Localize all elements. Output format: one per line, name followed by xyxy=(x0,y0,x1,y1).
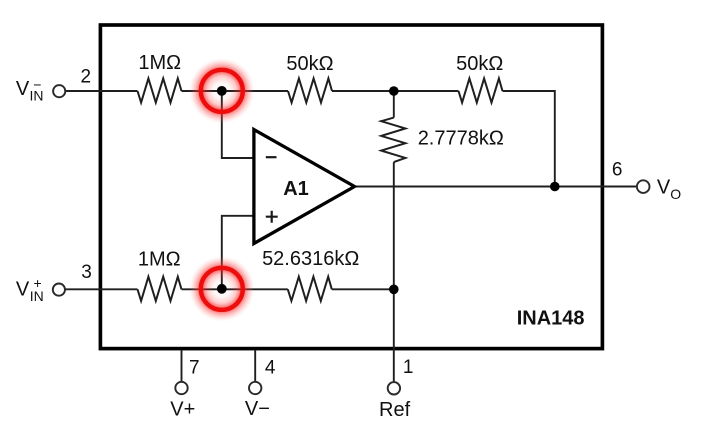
svg-text:2: 2 xyxy=(81,66,92,87)
svg-text:V−: V− xyxy=(245,398,270,420)
svg-text:4: 4 xyxy=(265,358,276,379)
wire node C to R6 xyxy=(182,288,288,290)
wire node B down to R4 xyxy=(393,91,395,118)
terminal pin 6 xyxy=(637,180,650,193)
wire output from op-amp to pin 6 xyxy=(355,186,638,188)
svg-text:50kΩ: 50kΩ xyxy=(286,53,333,75)
svg-text:V: V xyxy=(16,278,30,300)
wire R4 down to node D and Ref pin 1 xyxy=(393,162,395,382)
wire pin3 input xyxy=(65,288,138,290)
svg-text:INA148: INA148 xyxy=(517,308,585,330)
wire node A down to inverting input xyxy=(222,91,254,158)
red highlight glow node A xyxy=(189,58,255,124)
svg-text:+: + xyxy=(34,275,42,291)
svg-text:V: V xyxy=(657,176,671,198)
svg-text:−: − xyxy=(33,77,41,93)
svg-text:2.7778kΩ: 2.7778kΩ xyxy=(418,128,504,150)
svg-text:V: V xyxy=(16,78,30,100)
wire R3 to right corner xyxy=(503,91,555,187)
wire node B to R3 xyxy=(332,90,459,92)
wire node A to R2 xyxy=(182,90,289,92)
svg-text:7: 7 xyxy=(189,358,200,379)
junction dot node C xyxy=(217,284,227,294)
resistor R5 1M ohm bottom xyxy=(138,277,182,301)
terminal pin 2 xyxy=(53,85,65,97)
op-amp minus input sign xyxy=(266,156,277,158)
resistor R2 50k ohm top middle xyxy=(288,78,332,102)
junction dot node A xyxy=(217,86,227,96)
op-amp A1 triangle xyxy=(254,130,355,244)
svg-text:6: 6 xyxy=(612,159,623,180)
svg-text:50kΩ: 50kΩ xyxy=(456,53,503,75)
svg-text:V+: V+ xyxy=(170,399,195,421)
wire pin4 V- xyxy=(254,350,256,382)
junction dot output node xyxy=(550,182,560,192)
svg-text:A1: A1 xyxy=(283,178,309,200)
IC boundary box xyxy=(100,25,602,349)
svg-text:1: 1 xyxy=(403,357,414,378)
wire pin2 input xyxy=(65,90,137,92)
junction dot node D xyxy=(389,285,399,295)
svg-text:3: 3 xyxy=(81,262,92,283)
terminal pin 4 xyxy=(249,382,261,394)
wire R6 to node D xyxy=(332,288,394,290)
svg-text:O: O xyxy=(670,186,681,202)
op-amp plus input sign xyxy=(266,211,278,223)
wire node C down to noninverting input xyxy=(222,216,254,289)
svg-text:52.6316kΩ: 52.6316kΩ xyxy=(262,248,359,270)
svg-text:Ref: Ref xyxy=(379,399,411,421)
terminal pin 1 xyxy=(388,382,400,394)
resistor R4 2.7778k ohm vertical xyxy=(381,118,405,163)
terminal pin 7 xyxy=(175,382,187,394)
red highlight ring node C xyxy=(201,268,243,310)
terminal pin 3 xyxy=(53,284,65,296)
svg-text:1MΩ: 1MΩ xyxy=(138,248,181,270)
resistor R6 52.6316k ohm xyxy=(288,277,332,301)
red highlight ring node A xyxy=(201,70,243,112)
svg-text:1MΩ: 1MΩ xyxy=(138,52,181,74)
resistor R3 50k ohm top right xyxy=(459,78,503,102)
wire pin7 V+ xyxy=(181,350,183,382)
resistor R1 1M ohm top xyxy=(138,78,182,102)
junction dot node B xyxy=(389,86,399,96)
red highlight glow node C xyxy=(189,256,255,322)
